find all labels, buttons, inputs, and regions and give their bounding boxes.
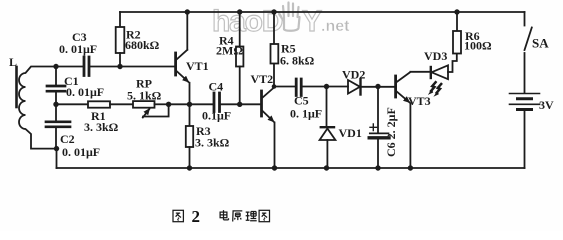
svg-text:C2: C2 [60, 132, 75, 146]
svg-text:0. 01μF: 0. 01μF [66, 85, 104, 99]
junction C4-R4-VT2 base [237, 102, 242, 107]
svg-text:VT2: VT2 [251, 72, 274, 86]
svg-text:Y: Y [302, 5, 322, 38]
junction R6 / top rail [454, 9, 459, 14]
svg-text:VD2: VD2 [342, 68, 365, 82]
svg-text:2MΩ: 2MΩ [216, 44, 243, 58]
caption char tu 1 [173, 210, 183, 221]
resistor R6 [456, 12, 458, 31]
watermark haoDIY.net [212, 3, 350, 39]
svg-text:6. 8kΩ: 6. 8kΩ [280, 54, 315, 68]
switch SA [524, 12, 526, 26]
svg-text:0. 01μF: 0. 01μF [62, 145, 100, 159]
wire mid rail RP to C4 [169, 103, 213, 105]
caption char dian [220, 210, 228, 220]
diode VD1 [326, 87, 328, 128]
caption char li [246, 212, 257, 221]
LED emission arrows [431, 82, 436, 91]
svg-text:5. 1kΩ: 5. 1kΩ [127, 89, 162, 103]
svg-text:3. 3kΩ: 3. 3kΩ [195, 136, 230, 150]
inductor L ferrite bar [15, 67, 18, 107]
svg-text:680kΩ: 680kΩ [125, 38, 160, 52]
svg-text:3V: 3V [539, 98, 554, 112]
svg-text:2: 2 [192, 207, 201, 226]
wire C2 node down to bottom rail [56, 149, 58, 168]
junction C6 / bottom rail [375, 165, 380, 170]
junction VD1 / bottom rail [324, 165, 329, 170]
junction R3 / bottom rail [187, 165, 192, 170]
junction VT2 emitter / bottom rail [272, 165, 277, 170]
watermark hand glyph [279, 3, 300, 31]
svg-text:VT3: VT3 [408, 94, 431, 108]
svg-text:0.1μF: 0.1μF [202, 109, 231, 123]
transistor VT1 [174, 53, 177, 75]
transistor VT3 [394, 76, 397, 97]
C6 plus sign [370, 124, 377, 131]
junction L-C2 bottom node [54, 146, 59, 151]
transistor VT2 [260, 91, 263, 116]
wire top-left node to C3 [56, 66, 83, 68]
diode VD2 [348, 80, 360, 94]
top rail wire [120, 11, 525, 13]
junction VT2 collector / R5 / C5 [272, 84, 277, 89]
svg-text:C4: C4 [209, 80, 224, 94]
wire VT2 collector to C5 [274, 86, 296, 88]
svg-text:VD3: VD3 [424, 49, 447, 63]
capacitor C5 [296, 79, 301, 96]
junction C5-VD2-VD1 [324, 84, 329, 89]
svg-text:C6 2. 2μF: C6 2. 2μF [384, 107, 398, 157]
svg-text:L: L [9, 55, 17, 69]
resistor R5 [273, 12, 275, 44]
svg-text:C5: C5 [294, 94, 309, 108]
potentiometer RP [133, 101, 155, 108]
junction VD2-C6-VT3 base [375, 84, 380, 89]
junction VT3 emitter / bottom rail [408, 165, 413, 170]
wire C3 to R2 node to VT1 base [89, 66, 176, 68]
junction RP right terminal [166, 102, 171, 107]
junction node C3-R2-VT1 base [117, 64, 122, 69]
svg-text:0. 01μF: 0. 01μF [59, 42, 97, 56]
resistor R3 [189, 104, 191, 126]
capacitor C2 [55, 104, 57, 148]
capacitor C3 [84, 57, 89, 76]
junction VT1 collector / top rail [185, 9, 190, 14]
svg-text:.net: .net [321, 18, 350, 35]
junction R5 / top rail [271, 9, 276, 14]
bottom rail wire [57, 167, 525, 169]
wire C4 node to VT2 base [240, 103, 261, 105]
resistor R4 [239, 12, 241, 47]
capacitor C1 [55, 67, 57, 105]
resistor R1 [56, 103, 88, 105]
junction node C1-C2-R1 [53, 102, 58, 107]
junction R4 / top rail [237, 9, 242, 14]
svg-text:0. 1μF: 0. 1μF [290, 107, 322, 121]
svg-text:VD1: VD1 [339, 126, 362, 140]
svg-text:3. 3kΩ: 3. 3kΩ [84, 120, 119, 134]
inductor L coil [19, 67, 57, 149]
caption char tu 2 [259, 210, 269, 221]
svg-text:SA: SA [532, 36, 549, 51]
svg-text:VT1: VT1 [186, 59, 209, 73]
battery 3V [510, 93, 540, 95]
capacitor C6 [377, 87, 379, 133]
capacitor C4 [214, 93, 220, 112]
RP wiper wire [143, 104, 169, 116]
caption char yuan [233, 211, 243, 222]
resistor R2 [119, 12, 121, 27]
junction VT1 emitter / R3 [187, 102, 192, 107]
svg-text:100Ω: 100Ω [464, 39, 492, 53]
junction node L-C1-C3 [53, 64, 58, 69]
caption: 图 2 电原理图 (drawn glyphs) [173, 210, 270, 222]
diode VD3 (LED) [430, 67, 432, 78]
